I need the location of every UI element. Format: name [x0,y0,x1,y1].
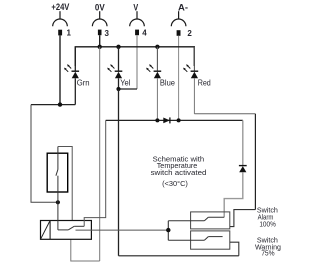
pin 4 [135,30,139,36]
wire 0V return to actuator box [71,239,100,261]
wire warning output [230,242,239,256]
svg-text:Grn: Grn [77,79,90,88]
diode D2 right [239,166,247,173]
temperature switch box [47,153,67,192]
svg-text:2: 2 [187,29,192,38]
svg-text:4: 4 [142,29,147,38]
pin 3 [98,30,102,36]
svg-text:3: 3 [105,29,110,38]
svg-text:(<30°C): (<30°C) [162,179,188,188]
node dot pin3/bus [98,45,102,49]
node dot Yel/bus [116,45,120,49]
connector 1 arc [53,11,68,26]
svg-text:1: 1 [67,29,72,38]
wire Yel down [118,89,120,256]
LED Red [183,47,198,114]
wire 0V bus [75,47,194,66]
wire alarm NC path [230,210,256,227]
wire bracket to switches [167,221,169,241]
svg-text:V: V [133,2,138,12]
wire bottom bus [119,255,239,257]
connector 2 arc [171,11,186,26]
svg-text:Red: Red [198,79,211,88]
actuator switch arm [58,202,84,230]
node dot temp switch [56,200,60,204]
wire pin1 down [59,35,61,104]
svg-text:Yel: Yel [120,79,130,88]
wire actuator contact to node line [84,120,106,226]
wire Yel bottom to pin4 [119,88,138,90]
node dot pin1 [58,102,62,106]
svg-text:75%: 75% [261,249,275,258]
label Switch Warning 75% [255,236,281,258]
wire left rail down [31,105,58,203]
node dot Blue/bus [155,45,159,49]
wire pin1 node horizontal [31,104,75,106]
actuator box [41,221,92,240]
label Switch Alarm 100% [257,206,278,229]
svg-text:100%: 100% [259,220,276,229]
switch box2 (warning) [191,231,230,249]
node dot bracket [166,228,170,232]
wire pin3 below bus [99,47,101,261]
node dot Blue bottom [155,118,159,122]
node dot Yel/pin4 [116,87,120,91]
actuator divider [49,221,51,240]
text block center [151,155,207,188]
wire temp switch jog to actuator [58,147,72,221]
actuator diagonal [41,221,51,240]
connector 3 arc [92,11,107,26]
wire diode branch down [242,120,244,165]
wire pin4 down [136,35,138,89]
connector 4 arc [130,11,145,26]
svg-text:+24V: +24V [51,2,70,12]
wire mid node line [106,119,243,121]
wire pin2 down to node [178,36,180,121]
svg-text:0V: 0V [95,2,105,12]
LED Blue [146,47,161,121]
diode D1 mid [163,117,170,123]
switch box1 (alarm) [191,212,230,229]
LED Yel [107,47,122,89]
LED Grn [64,47,79,105]
svg-text:A-: A- [178,2,188,12]
pin 2 [177,30,181,36]
svg-text:Blue: Blue [160,79,176,88]
wire pin3 to bus [99,35,101,47]
switch2 contact [168,237,222,241]
pin 1 [58,30,62,36]
wire actuator fixed lead [76,229,169,231]
svg-text:switch activated: switch activated [151,168,207,177]
switch1 contact [168,217,224,221]
temperature switch contact [56,147,58,203]
wire Red line right [194,113,255,115]
node dot pin2 bottom [177,118,181,122]
wire diode to switch1 [224,172,243,217]
